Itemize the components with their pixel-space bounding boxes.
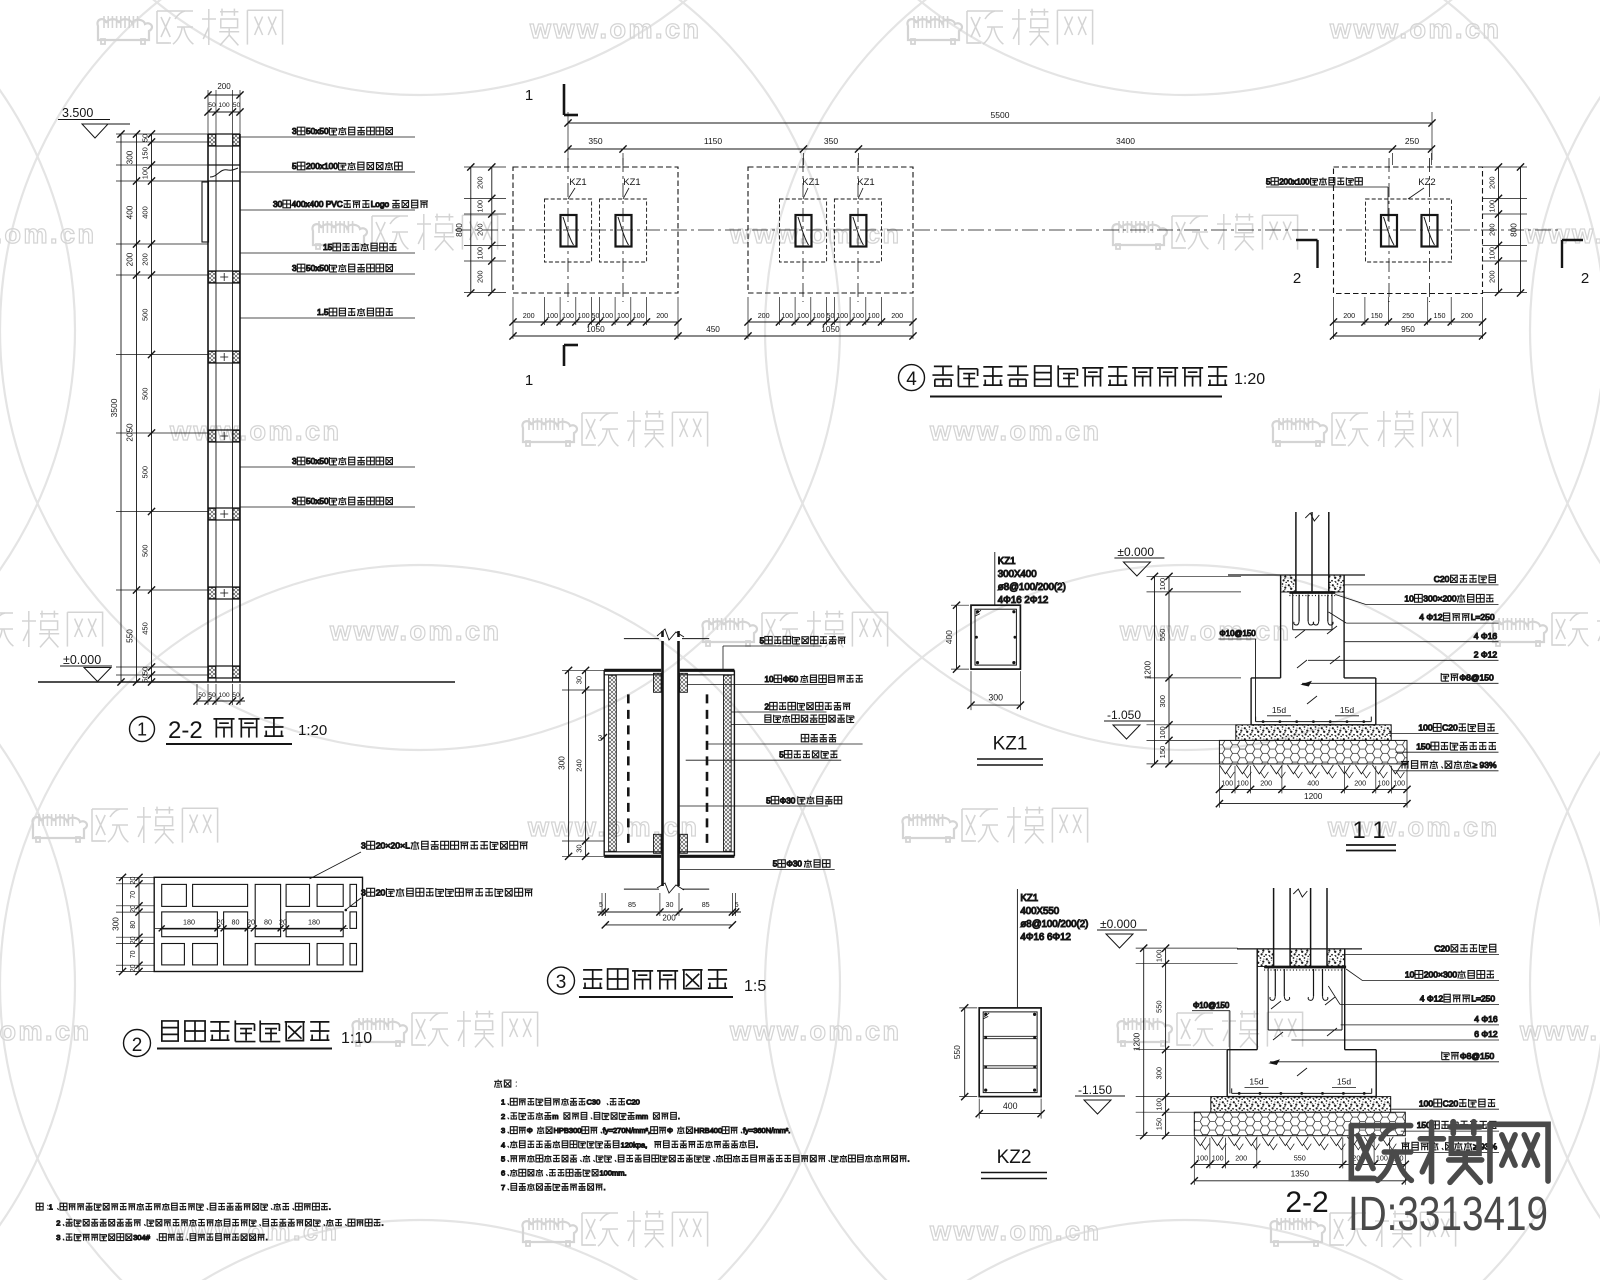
- svg-text:www.om.cn: www.om.cn: [1329, 14, 1502, 44]
- svg-text:3.500: 3.500: [62, 106, 93, 120]
- F1 left dim chains: [470, 167, 472, 293]
- svg-text:85: 85: [628, 900, 636, 909]
- svg-text:2-2: 2-2: [1285, 1186, 1328, 1219]
- svg-text:≥ 93%: ≥ 93%: [1473, 760, 1497, 770]
- svg-text:250: 250: [1402, 311, 1414, 320]
- svg-text:www.om.cn: www.om.cn: [329, 616, 502, 646]
- svg-text:400: 400: [1003, 1101, 1018, 1111]
- svg-text:1:20: 1:20: [298, 722, 327, 739]
- grating cells: [162, 884, 187, 906]
- svg-text:.: .: [908, 1155, 910, 1164]
- rubble cushion layer: [1219, 740, 1407, 764]
- svg-text:-1.050: -1.050: [1107, 708, 1141, 722]
- view 3 left dim chain: [568, 670, 570, 856]
- svg-text:3: 3: [292, 263, 297, 273]
- section 1-1: [1104, 512, 1499, 808]
- svg-text:3: 3: [292, 456, 297, 466]
- svg-text:400: 400: [126, 205, 135, 219]
- leader annotation: [731, 724, 825, 726]
- svg-text:.: .: [678, 1112, 680, 1121]
- svg-text:400x400 PVC: 400x400 PVC: [292, 199, 343, 209]
- KZ2 vertical dim: [964, 1008, 966, 1097]
- view 2 left dim chains: [122, 877, 124, 971]
- dimension chain fine segments: [151, 134, 153, 682]
- steel column: [1273, 888, 1275, 967]
- section cut mark 1 top: [563, 84, 566, 115]
- steel tube annotation: [1266, 177, 1362, 186]
- pedestal: [1256, 949, 1258, 1050]
- leader annotation: [688, 684, 827, 686]
- leader annotation: [240, 136, 415, 138]
- svg-text:100: 100: [1378, 778, 1390, 787]
- svg-text:200: 200: [1461, 311, 1473, 320]
- pipe break top: [657, 629, 684, 640]
- svg-text:10: 10: [765, 675, 775, 684]
- svg-text:300: 300: [112, 917, 121, 931]
- LED dashed line right: [706, 694, 709, 844]
- view 4 : foundation plan: [455, 84, 1589, 397]
- totals 1050/450/1050: [513, 335, 913, 337]
- KZ1 vertical dim: [956, 605, 958, 669]
- svg-text:500: 500: [141, 466, 150, 479]
- svg-text:www.om.cn: www.om.cn: [0, 219, 97, 249]
- svg-text:500: 500: [141, 309, 150, 322]
- svg-text:100: 100: [601, 311, 613, 320]
- svg-text:HPB300: HPB300: [554, 1126, 582, 1135]
- svg-text:www.om.cn: www.om.cn: [929, 416, 1102, 446]
- bottom dimension 50/50/100/50: [197, 700, 245, 702]
- svg-text:30: 30: [666, 900, 674, 909]
- svg-text:Φ: Φ: [527, 1126, 533, 1135]
- F2 bottom dims: [748, 321, 913, 323]
- rebar break ticks: [1271, 1001, 1281, 1009]
- view 3 : bamboo tube section detail: [548, 629, 863, 997]
- PVC logo panel: [202, 182, 209, 242]
- notes block shuoming: [494, 1080, 909, 1192]
- section 2-2: [1075, 888, 1499, 1185]
- KZ2 horizontal dim: [979, 1113, 1041, 1115]
- bottom band: [208, 665, 240, 667]
- view 4 title: [899, 365, 925, 391]
- F3 bottom dims: [1334, 321, 1483, 323]
- svg-text:200: 200: [656, 311, 668, 320]
- svg-text:100: 100: [476, 247, 485, 260]
- steel column: [1295, 512, 1297, 593]
- pier KZ1 a: [545, 199, 592, 262]
- svg-text:120kpa,: 120kpa,: [621, 1140, 648, 1149]
- svg-text:150: 150: [1155, 1118, 1164, 1131]
- svg-text:2050: 2050: [126, 423, 135, 442]
- steel column 1: [561, 215, 577, 247]
- leader annotation: [240, 273, 415, 275]
- svg-text:200x100: 200x100: [1279, 177, 1310, 186]
- svg-text:Logo: Logo: [371, 199, 390, 209]
- svg-text:100: 100: [852, 311, 864, 320]
- svg-text:200: 200: [476, 223, 485, 236]
- svg-text:800: 800: [1510, 223, 1519, 237]
- svg-text:Φ10@150: Φ10@150: [1219, 629, 1256, 638]
- svg-text:50: 50: [233, 102, 241, 109]
- svg-text:3: 3: [501, 1126, 505, 1135]
- svg-text:4 Φ12: 4 Φ12: [1420, 994, 1444, 1004]
- bottom rebar: [1256, 721, 1372, 723]
- svg-text:100: 100: [562, 311, 574, 320]
- extension lines: [116, 133, 208, 135]
- svg-text:200: 200: [1488, 270, 1497, 283]
- svg-text:Φ30: Φ30: [786, 860, 802, 869]
- svg-text:KZ1: KZ1: [998, 556, 1016, 567]
- svg-text:5: 5: [779, 751, 784, 760]
- grating inner dim row: [155, 927, 348, 929]
- svg-text:1200: 1200: [1304, 791, 1323, 801]
- svg-text:KZ1: KZ1: [1020, 893, 1038, 904]
- svg-text:100: 100: [1418, 723, 1432, 733]
- svg-text:100: 100: [1488, 200, 1497, 213]
- svg-text:±0.000: ±0.000: [1100, 917, 1137, 931]
- footing F1 outline: [513, 167, 678, 293]
- KZ2 detail: [952, 889, 1088, 1179]
- svg-text:20: 20: [130, 964, 137, 972]
- C20 fine concrete blocks: [1257, 949, 1273, 967]
- bottom dimension chain: [1194, 1163, 1405, 1165]
- svg-text:150: 150: [141, 147, 150, 160]
- svg-text:.: .: [756, 1140, 758, 1149]
- svg-text:180: 180: [183, 918, 195, 927]
- svg-text:250: 250: [1405, 136, 1419, 146]
- leader annotation: [240, 171, 415, 173]
- pier centerlines: [567, 158, 569, 302]
- svg-text:200×300: 200×300: [1424, 970, 1458, 980]
- svg-text:C20: C20: [1434, 574, 1450, 584]
- svg-text:50: 50: [198, 692, 206, 699]
- grating outer frame: [154, 877, 362, 971]
- leader annotation: [686, 759, 842, 761]
- svg-text:4 Φ16: 4 Φ16: [1474, 631, 1498, 641]
- overall dimension 5500: [568, 122, 1432, 124]
- svg-text:KZ1: KZ1: [569, 177, 586, 188]
- LED dashed line left: [627, 694, 630, 844]
- leader annotation: [240, 317, 415, 319]
- svg-text:100: 100: [868, 311, 880, 320]
- svg-text:550: 550: [1158, 629, 1167, 642]
- svg-text:200: 200: [217, 82, 231, 91]
- material annotations: [1344, 584, 1498, 586]
- svg-text:400: 400: [1307, 778, 1319, 787]
- svg-text:150: 150: [1434, 311, 1446, 320]
- svg-text:15d: 15d: [1340, 705, 1354, 715]
- bottom dimension chain: [1219, 788, 1407, 790]
- svg-text:50x50: 50x50: [306, 496, 329, 506]
- svg-text:2-2: 2-2: [168, 717, 203, 744]
- svg-text:200: 200: [1488, 176, 1497, 189]
- svg-text:5: 5: [501, 1155, 505, 1164]
- svg-text:www.om.cn: www.om.cn: [529, 14, 702, 44]
- dimension chain segments: [136, 134, 138, 682]
- KZ1 section: [971, 605, 1020, 669]
- svg-text:4Φ16 6Φ12: 4Φ16 6Φ12: [1020, 932, 1070, 943]
- svg-text:KZ1: KZ1: [857, 177, 874, 188]
- band 3: [208, 270, 240, 272]
- svg-text:5: 5: [766, 796, 771, 805]
- svg-text:4: 4: [906, 369, 917, 390]
- ground line: [1228, 574, 1365, 576]
- svg-text:3500: 3500: [109, 398, 119, 417]
- svg-text:100: 100: [1237, 778, 1249, 787]
- svg-text:2: 2: [1581, 270, 1589, 287]
- svg-text:30: 30: [575, 844, 584, 852]
- svg-text:Φ50: Φ50: [783, 675, 799, 684]
- svg-text:550: 550: [952, 1045, 962, 1059]
- rebar leader phi10: [1219, 629, 1256, 638]
- svg-text:400X550: 400X550: [1020, 906, 1059, 917]
- svg-text:www.om.cn: www.om.cn: [729, 1016, 902, 1046]
- svg-text:1200: 1200: [1144, 661, 1153, 680]
- svg-text:www.om.cn: www.om.cn: [1519, 1016, 1600, 1046]
- dimension row 350/1150/350/3400/250: [568, 148, 1432, 150]
- svg-text:Φ8@150: Φ8@150: [1459, 672, 1494, 682]
- svg-text:1: 1: [525, 87, 533, 104]
- svg-text:300: 300: [988, 693, 1003, 703]
- svg-text:10: 10: [1404, 594, 1414, 604]
- svg-text:20: 20: [376, 888, 386, 898]
- svg-text:100: 100: [1419, 1098, 1433, 1108]
- svg-text:5: 5: [735, 900, 739, 909]
- svg-text:2 Φ12: 2 Φ12: [1474, 649, 1498, 659]
- svg-text:300: 300: [126, 150, 135, 164]
- svg-text:350: 350: [588, 136, 602, 146]
- svg-text:550: 550: [126, 629, 135, 643]
- svg-text:200: 200: [891, 311, 903, 320]
- svg-text:KZ1: KZ1: [802, 177, 819, 188]
- svg-text:fy=360N/mm².: fy=360N/mm².: [743, 1126, 790, 1135]
- svg-text:200: 200: [1260, 778, 1272, 787]
- svg-text:.: .: [266, 1233, 268, 1242]
- svg-text:1050: 1050: [586, 324, 605, 334]
- svg-text:500: 500: [141, 388, 150, 401]
- svg-text:1350: 1350: [1291, 1168, 1310, 1178]
- svg-text:100: 100: [781, 311, 793, 320]
- svg-text:15d: 15d: [1249, 1077, 1263, 1087]
- svg-text:100: 100: [578, 311, 590, 320]
- leader annotation: [680, 805, 828, 807]
- svg-text:100: 100: [617, 311, 629, 320]
- svg-text:50x50: 50x50: [306, 456, 329, 466]
- svg-text:Φ8@150: Φ8@150: [1460, 1051, 1495, 1061]
- compacted soil hatch: [1219, 765, 1231, 774]
- svg-text:100: 100: [813, 311, 825, 320]
- section cut mark 2 left: [1296, 239, 1318, 241]
- svg-text:80: 80: [130, 921, 137, 929]
- svg-text:20: 20: [130, 905, 137, 913]
- view 2 : zinc steel grating detail: [112, 841, 533, 1057]
- svg-text:3: 3: [292, 126, 297, 136]
- svg-text:100mm.: 100mm.: [600, 1169, 627, 1178]
- dimension chain total 3500: [120, 134, 122, 682]
- rubble cushion layer: [1194, 1112, 1405, 1136]
- svg-text:20: 20: [130, 936, 137, 944]
- svg-text:www.om.cn: www.om.cn: [169, 416, 342, 446]
- svg-text:300: 300: [1158, 695, 1167, 708]
- anchor pocket: [1292, 593, 1294, 630]
- notes block zhu: [36, 1203, 383, 1243]
- steel column 2: [616, 215, 632, 247]
- svg-text:6 Φ12: 6 Φ12: [1474, 1029, 1498, 1039]
- leader annotation: [240, 506, 415, 508]
- svg-text:50x50: 50x50: [306, 263, 329, 273]
- svg-text:50: 50: [141, 134, 150, 142]
- svg-text:3400: 3400: [1116, 136, 1135, 146]
- svg-text:400: 400: [944, 630, 954, 644]
- svg-text:200: 200: [476, 270, 485, 283]
- leader annotation: [731, 711, 826, 713]
- svg-text:100: 100: [1158, 726, 1167, 739]
- vertical dim chain: [1143, 948, 1145, 1136]
- grating annotation 1: [361, 841, 528, 851]
- svg-text:100: 100: [218, 102, 230, 109]
- svg-text:C20: C20: [1442, 723, 1458, 733]
- column outer lines: [207, 134, 209, 682]
- top cut line: [624, 638, 659, 640]
- svg-text:50: 50: [208, 692, 216, 699]
- bottom rebar: [1232, 1092, 1372, 1094]
- svg-text:1:20: 1:20: [1234, 371, 1265, 388]
- band 5: [208, 429, 240, 431]
- colour steel band with wave: [208, 164, 240, 166]
- svg-text:HRB400: HRB400: [694, 1126, 722, 1135]
- svg-text:100: 100: [1196, 1153, 1208, 1162]
- svg-text:10: 10: [1405, 970, 1415, 980]
- svg-text:300X400: 300X400: [998, 569, 1037, 580]
- column inner lines: [215, 134, 217, 682]
- steel pipe: [661, 631, 664, 637]
- svg-text:200: 200: [523, 311, 535, 320]
- svg-text:Φ30: Φ30: [780, 796, 796, 805]
- svg-text:7: 7: [501, 1183, 505, 1192]
- svg-text:Φ10@150: Φ10@150: [1193, 1001, 1230, 1010]
- svg-text:50: 50: [208, 102, 216, 109]
- KZ2 reinforcement text block: [1016, 889, 1018, 1008]
- svg-text:KZ2: KZ2: [997, 1147, 1032, 1168]
- ground line: [38, 681, 455, 683]
- svg-text:ø8@100/200(2): ø8@100/200(2): [1020, 919, 1088, 930]
- svg-text:5500: 5500: [991, 110, 1010, 120]
- svg-text:20×20×L: 20×20×L: [376, 841, 410, 851]
- section cut mark 2 right: [1562, 239, 1583, 241]
- svg-text:ID:3313419: ID:3313419: [1348, 1188, 1548, 1241]
- vertical dim chain: [1154, 576, 1156, 764]
- svg-text:180: 180: [308, 918, 320, 927]
- svg-text:50: 50: [141, 667, 150, 675]
- steel column 4: [850, 215, 866, 247]
- anchor pocket: [1267, 967, 1269, 1030]
- svg-text:-1.150: -1.150: [1078, 1083, 1112, 1097]
- svg-text:15d: 15d: [1337, 1077, 1351, 1087]
- pipe break bottom: [657, 883, 684, 893]
- svg-text:50x50: 50x50: [306, 126, 329, 136]
- top band square tube: [208, 133, 240, 135]
- bottom total dim: [1194, 1180, 1405, 1182]
- svg-text:950: 950: [1401, 324, 1415, 334]
- svg-text:fy=270N/mm²,: fy=270N/mm²,: [603, 1126, 650, 1135]
- F1 bottom dims: [513, 321, 678, 323]
- svg-text:2: 2: [56, 1219, 60, 1228]
- svg-text:100: 100: [218, 692, 230, 699]
- svg-text:50: 50: [827, 311, 835, 320]
- KZ2 section: [979, 1008, 1041, 1097]
- svg-text:15: 15: [323, 242, 333, 252]
- view 3 title: [548, 967, 575, 994]
- svg-text:www.om.cn: www.om.cn: [0, 1016, 92, 1046]
- svg-text:1:10: 1:10: [341, 1030, 372, 1047]
- svg-text:3: 3: [292, 496, 297, 506]
- svg-text:.: .: [329, 1203, 331, 1212]
- svg-text:30: 30: [575, 676, 584, 684]
- svg-text:2: 2: [132, 1035, 143, 1056]
- svg-text:1200: 1200: [1133, 1032, 1142, 1051]
- svg-text:550: 550: [1294, 1153, 1306, 1162]
- svg-text:C20: C20: [1434, 944, 1450, 954]
- rebar break ticks: [1295, 630, 1305, 638]
- svg-text:4: 4: [501, 1140, 505, 1149]
- svg-text:100: 100: [476, 200, 485, 213]
- svg-text:100: 100: [1488, 247, 1497, 260]
- footing tier: [1251, 677, 1281, 679]
- svg-text:400: 400: [141, 206, 150, 219]
- svg-text:KZ1: KZ1: [993, 734, 1028, 755]
- svg-text:200: 200: [1488, 223, 1497, 236]
- leader annotation: [240, 252, 415, 254]
- svg-text:www.om.cn: www.om.cn: [929, 1216, 1102, 1246]
- svg-text:.: .: [382, 1219, 384, 1228]
- pier KZ2: [1366, 199, 1452, 262]
- svg-text:150: 150: [1371, 311, 1383, 320]
- ground line: [1237, 948, 1362, 950]
- pedestal: [1280, 575, 1282, 678]
- svg-text:100: 100: [836, 311, 848, 320]
- leader annotation: [680, 868, 835, 870]
- svg-text:1: 1: [49, 1203, 53, 1212]
- svg-text:800: 800: [455, 223, 464, 237]
- svg-text:3: 3: [556, 972, 567, 993]
- KZ1 detail: [944, 552, 1066, 765]
- svg-text:www.om.cn: www.om.cn: [729, 219, 902, 249]
- svg-text:300×200: 300×200: [1423, 594, 1457, 604]
- svg-text:150: 150: [1158, 746, 1167, 759]
- svg-text:100: 100: [633, 311, 645, 320]
- svg-text:3: 3: [56, 1233, 60, 1242]
- svg-text:550: 550: [1155, 1000, 1164, 1013]
- svg-text:240: 240: [575, 759, 584, 772]
- svg-text:5: 5: [773, 860, 778, 869]
- svg-text:85: 85: [702, 900, 710, 909]
- footing F3 outline: [1334, 167, 1483, 294]
- svg-text:200: 200: [1343, 311, 1355, 320]
- svg-text:20: 20: [130, 877, 137, 885]
- site logo oumowang: [1351, 1122, 1548, 1183]
- svg-text:1: 1: [137, 720, 147, 740]
- svg-text:1 1: 1 1: [1352, 817, 1385, 844]
- leader annotation: [240, 466, 415, 468]
- footing tier: [1227, 1049, 1257, 1051]
- svg-text:100: 100: [546, 311, 558, 320]
- svg-text:100: 100: [1158, 578, 1167, 591]
- svg-text:500: 500: [141, 545, 150, 558]
- svg-text:450: 450: [706, 324, 720, 334]
- bottom cut line: [624, 888, 659, 890]
- svg-text:±0.000: ±0.000: [63, 653, 101, 667]
- svg-text:.: .: [604, 1183, 606, 1192]
- svg-text:C20: C20: [626, 1098, 640, 1107]
